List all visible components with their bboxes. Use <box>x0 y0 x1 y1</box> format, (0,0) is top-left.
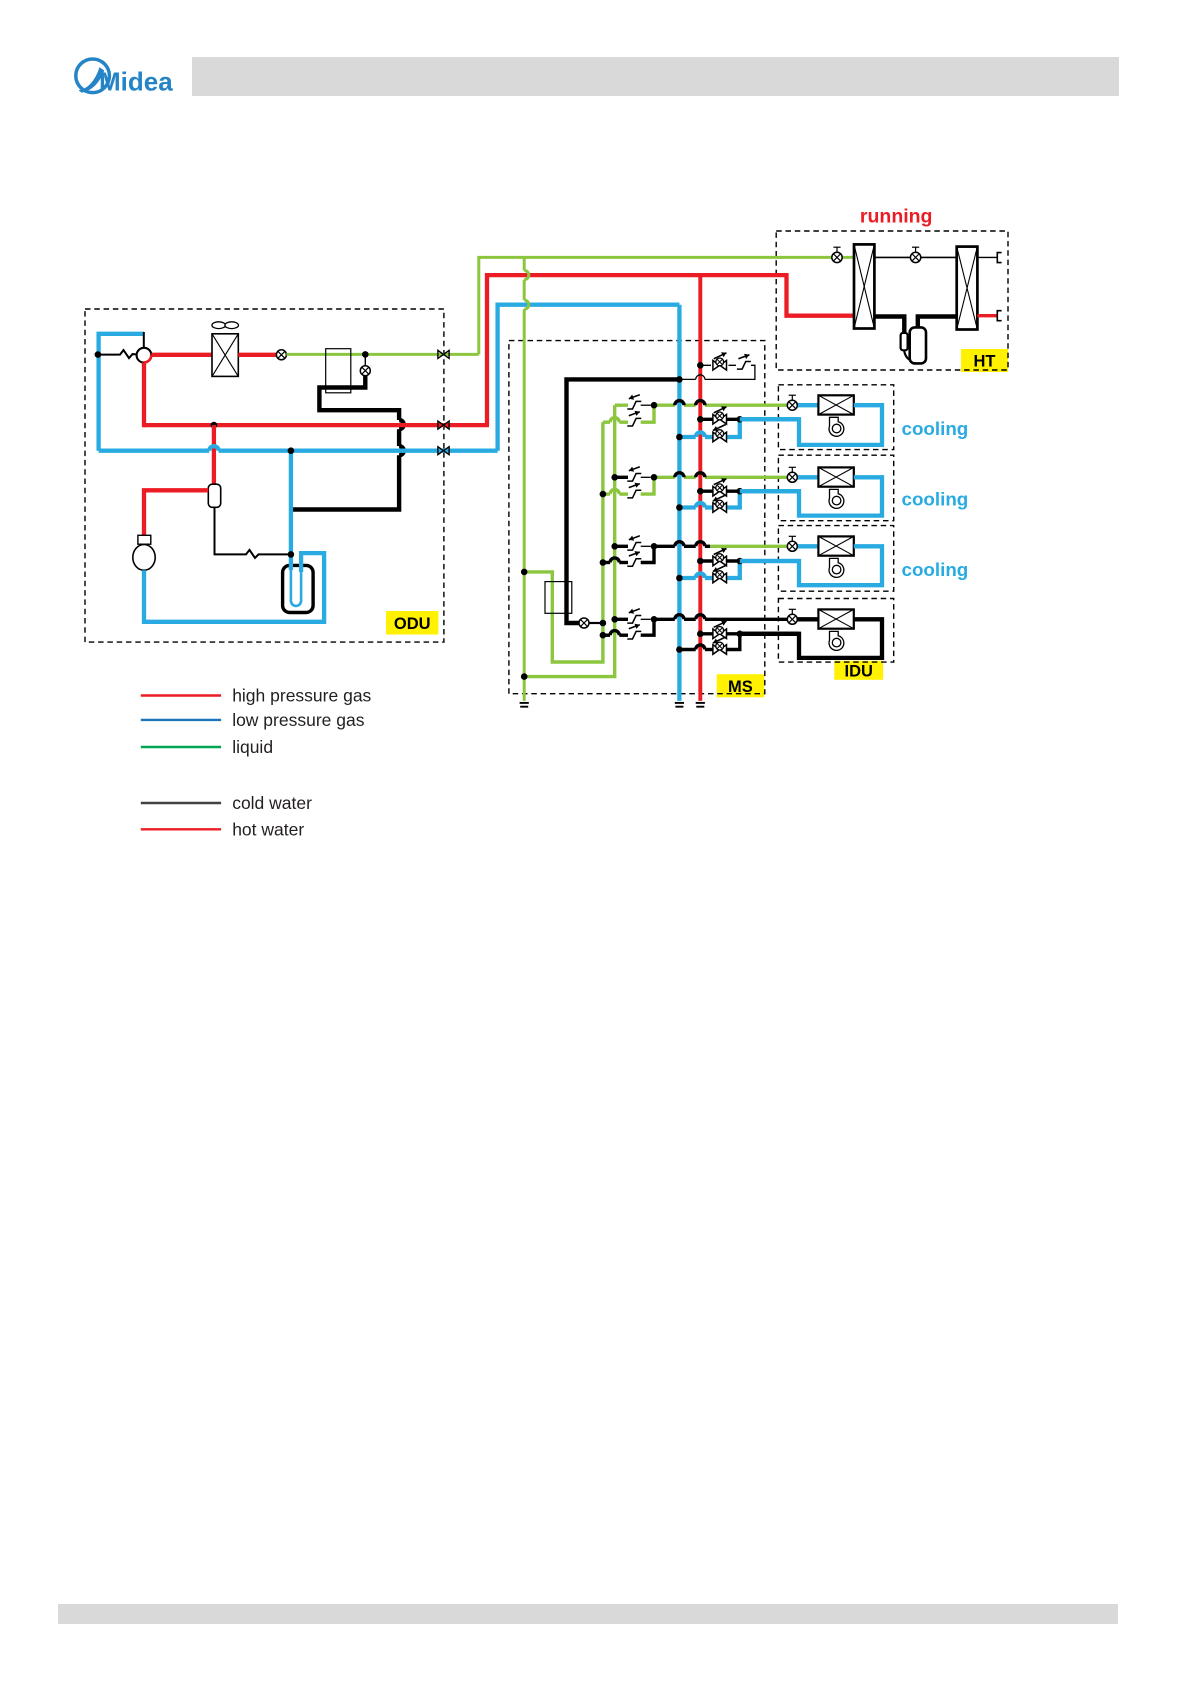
branch3 subcool line <box>603 561 610 564</box>
branch3 hot gas solenoid <box>713 556 727 566</box>
top gray bar <box>192 57 1119 96</box>
branch3 node EEV out <box>651 543 658 550</box>
branch4 gas line to IDU <box>740 632 799 636</box>
branch2 gas pipe corner <box>727 491 740 507</box>
MS subcooler EEV outlet wire <box>589 622 603 624</box>
relief branch wire <box>700 365 755 379</box>
branch1 hop sub over V3 <box>610 418 619 423</box>
branch3 hop sub over V3 <box>610 558 619 563</box>
branch1 gas line to IDU <box>740 417 799 421</box>
wire subcooler valve stub <box>364 354 366 365</box>
cold water connector <box>997 253 1001 263</box>
branch1 suction solenoid <box>713 432 727 442</box>
branch2 node EEV out <box>651 474 658 481</box>
compressor discharge pipe red <box>144 490 208 535</box>
MS subcooler EEV <box>579 618 589 628</box>
Midea logo circle <box>76 59 110 93</box>
branch4 suction valve line <box>705 648 713 651</box>
node relief on red header <box>697 362 704 369</box>
HT box <box>776 231 1008 370</box>
legend line high pressure gas <box>141 694 221 696</box>
branch3 hop over blue header <box>675 542 684 547</box>
HT HX2 <box>957 247 978 330</box>
IDU4 EEV valve <box>797 617 818 621</box>
branch2 hot-gas valve line <box>700 490 740 493</box>
ODU subcooler <box>326 349 351 393</box>
legend line hot water <box>141 828 221 830</box>
HT label <box>961 349 1008 372</box>
branch2 hop suction over red <box>696 503 705 508</box>
branch3 hop over red header <box>696 542 705 547</box>
HT HX1 <box>854 244 874 328</box>
HT mid valve <box>910 252 920 262</box>
svg-text:HT: HT <box>974 353 996 371</box>
svg-text:liquid: liquid <box>232 737 273 757</box>
IDU4 box <box>778 599 893 663</box>
HT hot water pipe <box>977 314 997 317</box>
svg-text:IDU: IDU <box>844 663 872 681</box>
IDU label <box>834 661 883 680</box>
liquid pipe ODU riser and top run <box>479 257 854 354</box>
branch3 EEV2 <box>627 559 641 567</box>
MS label <box>717 674 765 697</box>
branch1 node on red header <box>697 416 704 423</box>
legend line liquid <box>141 746 221 748</box>
branch4 hop sub over V3 <box>610 631 619 636</box>
hot gas main horizontal <box>144 423 489 427</box>
branch4 liquid line to IDU <box>654 618 675 621</box>
IDU3 HX <box>818 536 853 555</box>
branch1 subcool line <box>603 421 610 424</box>
HT cold water out wire <box>977 256 997 258</box>
MS liquid subheader V3 <box>524 405 615 676</box>
branch3 node sub on V2 <box>600 559 607 566</box>
svg-text:cooling: cooling <box>902 559 969 580</box>
branch2 liquid EEV segment <box>615 476 628 479</box>
branch2 node sub on V2 <box>600 491 607 498</box>
MS subcooler <box>545 582 572 614</box>
branch3 liquid line to IDU <box>654 545 675 548</box>
branch2 node on blue header <box>676 504 683 511</box>
branch1 hop suction over red <box>696 432 705 437</box>
compressor <box>133 545 155 571</box>
branch3 hot-gas valve line <box>700 559 740 562</box>
branch2 node gas corner <box>737 488 744 495</box>
hot gas riser and top run <box>487 275 854 425</box>
compressor port <box>138 535 151 544</box>
HT wire HX1-HX2 <box>874 256 956 258</box>
branch4 hop suction over red <box>696 645 705 650</box>
ODU service valve suction <box>438 447 449 455</box>
suction riser and top run <box>498 305 680 451</box>
bottom gray bar <box>58 1604 1118 1624</box>
branch4 gas pipe corner <box>727 634 740 650</box>
ODU suction blue L-pipe <box>99 334 144 451</box>
branch4 suction solenoid <box>713 645 727 655</box>
branch3 gas pipe corner <box>727 561 740 578</box>
IDU1 HX <box>818 395 853 414</box>
node hot gas to oil separator <box>211 422 218 429</box>
4-way valve <box>137 348 152 363</box>
HT pump loop pipe <box>874 317 904 333</box>
branch4 hop over blue header <box>675 615 684 620</box>
accumulator internal U-tube <box>291 570 301 606</box>
wire 4way left stub with capillary <box>98 350 139 358</box>
IDU1 EEV valve <box>797 403 818 407</box>
HT pump inlet fitting <box>901 333 908 350</box>
branch1 liquid line to IDU <box>654 404 675 407</box>
wire 4way top stub <box>143 332 145 349</box>
branch1 node EEV out <box>651 402 658 409</box>
MS subcooler liquid feed <box>524 422 603 662</box>
svg-text:running: running <box>860 206 933 228</box>
svg-text:high pressure gas: high pressure gas <box>232 686 371 706</box>
branch3 node on blue header <box>676 575 683 582</box>
Midea logo swoosh <box>79 68 104 93</box>
IDU1 box <box>778 385 893 450</box>
branch3 gas line to IDU <box>740 559 799 563</box>
branch3 liquid EEV segment <box>615 545 628 548</box>
IDU4 fan <box>829 631 844 650</box>
branch2 hop over blue header <box>675 473 684 478</box>
branch3 node main on V3 <box>611 543 618 550</box>
node suction accumulator branch <box>288 447 295 454</box>
branch2 liquid line to IDU <box>654 476 675 479</box>
svg-text:cold water: cold water <box>232 793 312 813</box>
hop V1 over blue top <box>524 300 529 309</box>
node relief on blue header <box>676 376 683 383</box>
branch4 node sub on V2 <box>600 632 607 639</box>
hop black over red <box>399 420 404 429</box>
suction drop pipe blue <box>289 451 293 570</box>
accumulator <box>283 565 314 612</box>
ODU service valve liquid <box>438 350 449 358</box>
branch1 hot gas solenoid <box>713 415 727 425</box>
branch3 node gas corner <box>737 558 744 565</box>
oil separator feed pipe red <box>212 425 216 485</box>
branch1 suction valve line <box>705 435 713 439</box>
svg-text:Midea: Midea <box>99 67 173 97</box>
node subcool feed on V1 <box>521 569 528 576</box>
branch4 subcool line <box>603 634 610 637</box>
IDU3 fan <box>829 558 844 577</box>
hop black over blue <box>399 446 404 455</box>
legend line cold water <box>141 802 221 804</box>
pipe fancoil to valve red <box>238 353 276 357</box>
legend line low pressure gas <box>141 719 221 721</box>
HT liquid valve <box>832 252 842 262</box>
branch3 EEV1 <box>627 543 641 551</box>
branch1 EEV1 <box>627 401 641 409</box>
MS liquid header V1 <box>523 257 526 270</box>
branch1 hop over red header <box>696 401 705 406</box>
branch1 gas pipe corner <box>727 419 740 437</box>
HT pump arc <box>904 350 911 360</box>
ground red header <box>696 702 705 704</box>
svg-text:cooling: cooling <box>902 489 969 510</box>
branch4 liquid EEV segment <box>615 618 628 621</box>
hop blue over red vertical <box>209 446 218 451</box>
ground blue header <box>675 702 684 704</box>
ODU coil HX <box>212 334 238 377</box>
IDU2 gas loop pipe <box>740 477 882 515</box>
IDU1 gas loop pipe <box>740 405 882 445</box>
hot gas pipe 4way to fancoil <box>151 353 212 357</box>
valve after coil <box>276 350 286 360</box>
MS subcool gas pipe black <box>567 379 680 623</box>
IDU2 HX <box>818 467 853 486</box>
IDU3 box <box>778 526 893 592</box>
branch2 EEV1 <box>627 474 641 482</box>
branch1 liquid EEV segment <box>615 404 628 407</box>
branch1 hop over blue header <box>675 401 684 406</box>
IDU3 EEV valve <box>797 544 818 548</box>
hot water connector <box>997 311 1001 321</box>
MS hot gas header red <box>698 275 702 701</box>
branch4 EEV2 <box>627 631 641 639</box>
ODU service valve hot gas <box>438 421 449 429</box>
node liquid-subcooler branch <box>362 351 369 358</box>
hop relief wire over red <box>696 375 705 380</box>
branch3 suction solenoid <box>713 573 727 583</box>
branch1 node on blue header <box>676 434 683 441</box>
oil separator <box>208 484 220 507</box>
MS box <box>509 341 765 694</box>
liquid pipe to ODU border <box>286 353 478 356</box>
HT pump <box>910 327 926 363</box>
branch4 hop over red header <box>696 615 705 620</box>
svg-text:cooling: cooling <box>902 418 969 439</box>
IDU4 gas loop pipe <box>740 619 882 658</box>
branch2 hop sub over V3 <box>610 490 619 495</box>
ODU fan <box>212 322 226 329</box>
IDU2 fan <box>829 489 844 508</box>
branch4 node gas corner <box>737 631 744 638</box>
svg-text:low pressure gas: low pressure gas <box>232 710 365 730</box>
branch3 suction valve line <box>705 576 713 580</box>
ground V1 <box>520 702 529 704</box>
branch2 EEV2 <box>627 490 641 498</box>
subcooler EEV valve <box>360 366 370 376</box>
IDU2 box <box>778 455 893 521</box>
svg-text:hot water: hot water <box>232 820 304 840</box>
branch1 hot-gas valve line <box>700 418 740 421</box>
accumulator outlet pipe blue <box>144 553 324 622</box>
branch4 node on blue header <box>676 646 683 653</box>
branch2 gas line to IDU <box>740 489 799 493</box>
relief solenoid valve <box>713 361 727 371</box>
node subcool EEV on V2 <box>600 620 607 627</box>
node oil return junction <box>288 551 295 558</box>
ODU label <box>386 611 438 635</box>
branch4 node main on V3 <box>611 616 618 623</box>
IDU4 HX <box>818 609 853 628</box>
IDU2 EEV valve <box>797 475 818 479</box>
hot gas down pipe from 4way <box>142 362 146 427</box>
branch2 hop over red header <box>696 473 705 478</box>
suction blue main horizontal <box>99 449 210 453</box>
branch1 EEV2 <box>627 418 641 426</box>
branch4 hot gas solenoid <box>713 629 727 639</box>
node V3 bottom on V1 <box>521 673 528 680</box>
branch2 subcool line <box>603 492 610 495</box>
branch4 node on red header <box>697 631 704 638</box>
branch2 node main on V3 <box>611 474 618 481</box>
branch3 node on red header <box>697 558 704 565</box>
branch2 node on red header <box>697 488 704 495</box>
branch2 hot gas solenoid <box>713 486 727 496</box>
branch3 hop suction over red <box>696 573 705 578</box>
ODU box <box>85 309 444 642</box>
oil return wire with capillary <box>215 507 291 558</box>
branch2 suction valve line <box>705 505 713 509</box>
branch2 suction solenoid <box>713 503 727 513</box>
MS suction header blue <box>677 305 681 701</box>
branch4 EEV1 <box>627 616 641 624</box>
branch4 hot-gas valve line <box>700 632 740 635</box>
svg-text:ODU: ODU <box>394 615 431 633</box>
relief check valve <box>737 362 751 370</box>
IDU1 fan <box>829 417 844 436</box>
IDU3 gas loop pipe <box>740 546 882 585</box>
branch4 node EEV out <box>651 616 658 623</box>
branch1 node gas corner <box>737 416 744 423</box>
hop V1 over red top <box>524 271 529 280</box>
node suction-4way <box>95 351 102 358</box>
subcooler gas return pipe black <box>319 376 399 420</box>
